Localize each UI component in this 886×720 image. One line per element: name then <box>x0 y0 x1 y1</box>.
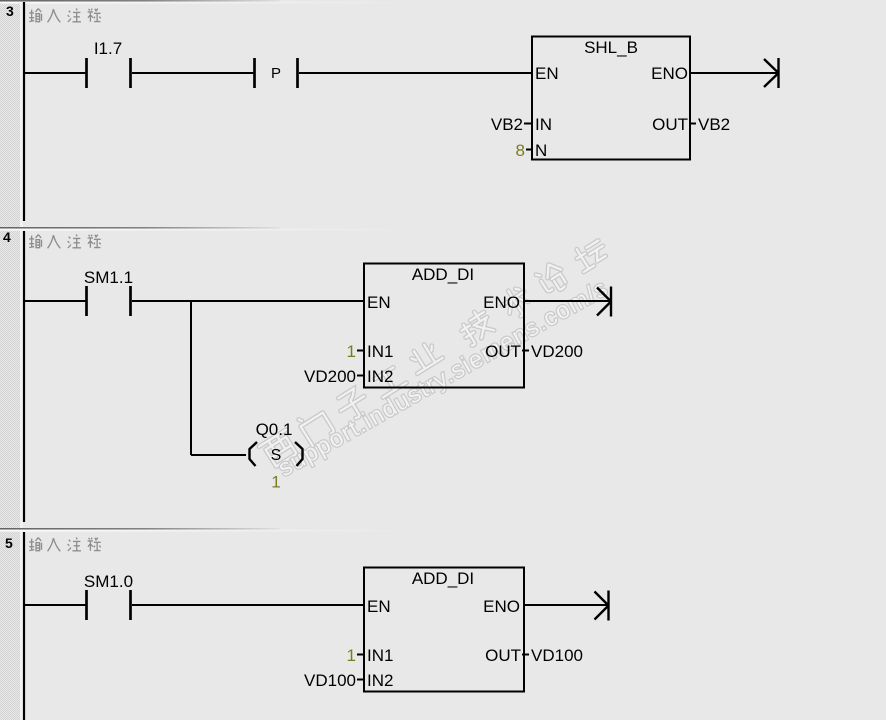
pin N with operand 8 <box>516 141 548 160</box>
left power rail network 3 <box>23 2 25 221</box>
svg-text:ENO: ENO <box>483 597 520 616</box>
network 3 comment 输入注释 <box>29 9 100 23</box>
svg-text:1: 1 <box>347 646 356 665</box>
pin IN1 with operand 1 network 5 <box>347 646 394 665</box>
coil S Q0.1 <box>250 420 303 492</box>
branch junction vertical wire <box>190 301 192 455</box>
contact SM1.0 <box>84 572 133 620</box>
svg-text:IN1: IN1 <box>367 646 393 665</box>
pin OUT with operand VD100 network 5 <box>485 646 583 665</box>
contact P positive edge <box>255 58 298 88</box>
network 4 separator line <box>0 227 420 231</box>
network 5 separator line <box>0 528 420 532</box>
open wire arrow network 5 <box>595 591 609 621</box>
svg-text:IN2: IN2 <box>367 671 393 690</box>
wire SM1.0 to ADD_DI EN <box>132 604 364 606</box>
svg-text:VD200: VD200 <box>304 367 356 386</box>
function box ADD_DI network 4 <box>364 264 524 388</box>
network 4 comment 输入注释 <box>29 235 100 249</box>
wire SM1.1 to ADD_DI EN <box>132 300 364 302</box>
pin IN2 with operand VD200 network 4 <box>304 367 393 386</box>
svg-text:5: 5 <box>5 535 13 551</box>
svg-text:1: 1 <box>271 473 280 492</box>
pin OUT with operand VD200 network 4 <box>485 342 583 361</box>
svg-text:ENO: ENO <box>483 293 520 312</box>
svg-text:IN: IN <box>535 115 552 134</box>
left power rail network 4 <box>23 231 25 522</box>
branch wire to coil <box>191 454 246 456</box>
wire I1.7 to contact P <box>132 72 254 74</box>
wire rail to contact I1.7 <box>24 72 86 74</box>
svg-text:8: 8 <box>516 141 525 160</box>
open wire arrow network 3 <box>764 58 779 88</box>
wire ENO to arrow network 3 <box>690 72 777 74</box>
pin IN with operand VB2 <box>491 115 552 134</box>
wire rail to contact SM1.0 <box>24 604 86 606</box>
contact SM1.1 <box>84 268 133 316</box>
svg-text:VD200: VD200 <box>531 342 583 361</box>
svg-text:VB2: VB2 <box>698 115 730 134</box>
svg-text:1: 1 <box>347 342 356 361</box>
svg-text:VD100: VD100 <box>304 671 356 690</box>
svg-text:EN: EN <box>367 597 391 616</box>
network 5 comment 输入注释 <box>29 538 100 552</box>
svg-text:4: 4 <box>3 229 11 245</box>
svg-text:ENO: ENO <box>651 64 688 83</box>
svg-text:N: N <box>535 141 547 160</box>
svg-text:IN1: IN1 <box>367 342 393 361</box>
svg-text:SM1.0: SM1.0 <box>84 572 133 591</box>
left power rail network 5 <box>23 532 25 720</box>
watermark siemens forum <box>258 234 612 471</box>
pin IN2 with operand VD100 network 5 <box>304 671 393 690</box>
svg-text:ADD_DI: ADD_DI <box>412 265 474 284</box>
network margin gutter <box>0 0 23 720</box>
svg-text:Q0.1: Q0.1 <box>256 420 293 439</box>
svg-text:SM1.1: SM1.1 <box>84 268 133 287</box>
svg-text:S: S <box>271 447 282 464</box>
wire P to SHL_B EN <box>299 72 532 74</box>
watermark url text <box>274 274 613 482</box>
svg-text:ADD_DI: ADD_DI <box>412 569 474 588</box>
wire ENO to arrow network 5 <box>524 604 607 606</box>
pin IN1 with operand 1 network 4 <box>347 342 394 361</box>
svg-text:EN: EN <box>535 64 559 83</box>
svg-text:IN2: IN2 <box>367 367 393 386</box>
contact I1.7 <box>87 39 131 88</box>
function box ADD_DI network 5 <box>364 568 524 692</box>
svg-text:P: P <box>271 65 281 82</box>
svg-text:SHL_B: SHL_B <box>584 38 638 57</box>
wire rail to contact SM1.1 <box>24 300 86 302</box>
svg-text:OUT: OUT <box>485 342 521 361</box>
pin OUT with operand VB2 <box>652 115 730 134</box>
svg-text:3: 3 <box>6 3 14 19</box>
network 3 separator line <box>0 0 420 4</box>
svg-text:OUT: OUT <box>652 115 688 134</box>
wire ENO to arrow network 4 <box>524 300 610 302</box>
svg-text:VD100: VD100 <box>531 646 583 665</box>
svg-text:OUT: OUT <box>485 646 521 665</box>
svg-text:VB2: VB2 <box>491 115 523 134</box>
svg-text:I1.7: I1.7 <box>94 39 122 58</box>
function box SHL_B <box>532 37 690 160</box>
open wire arrow network 4 <box>597 287 611 317</box>
svg-text:EN: EN <box>367 293 391 312</box>
